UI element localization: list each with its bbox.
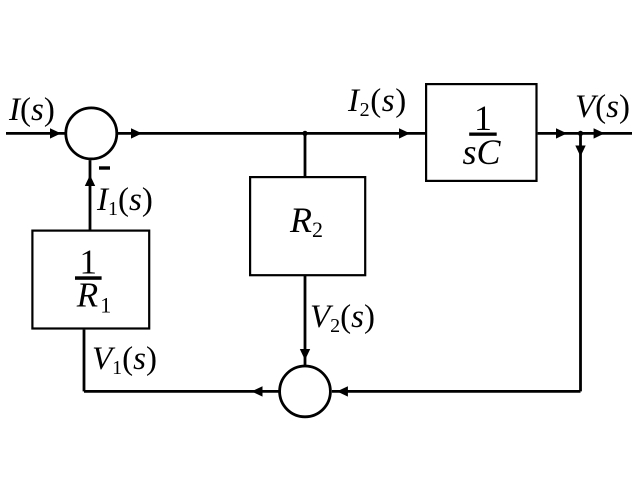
arrowhead after top summer xyxy=(131,128,142,138)
svg-text:R2: R2 xyxy=(289,200,323,242)
svg-text:R1: R1 xyxy=(76,275,111,317)
arrowhead V2 into bottom summer xyxy=(300,349,310,360)
value 1/R1 fraction xyxy=(75,243,111,318)
wire input I(s) xyxy=(6,132,65,135)
arrowhead into 1/sC xyxy=(399,128,410,138)
wire 1/sC output to right xyxy=(538,132,632,135)
block 1/sC xyxy=(426,84,536,181)
block R2 xyxy=(250,177,365,275)
node junction dot I2 xyxy=(302,131,307,136)
summing junction top xyxy=(66,108,117,159)
arrowhead input xyxy=(50,128,61,138)
arrowhead bottom output left xyxy=(252,386,263,396)
minus sign at top summer xyxy=(99,166,110,169)
svg-text:I2(s): I2(s) xyxy=(347,83,407,121)
arrowhead up into top summer xyxy=(85,175,95,186)
wire right into bottom summer xyxy=(332,390,581,393)
node junction dot V xyxy=(578,131,583,136)
wire R2 down to bottom summer xyxy=(304,276,307,365)
wire right vertical feedback xyxy=(579,133,582,391)
wire bottom summer output left xyxy=(84,390,279,393)
wire left vertical up to 1/R1 xyxy=(83,330,86,392)
svg-text:I1(s): I1(s) xyxy=(96,182,153,220)
wire junction down to R2 xyxy=(304,133,307,176)
svg-text:V1(s): V1(s) xyxy=(92,341,157,379)
arrowhead into bottom summer from right xyxy=(337,386,348,396)
svg-text:I(s): I(s) xyxy=(8,92,55,128)
svg-text:sC: sC xyxy=(462,132,501,172)
wire top summer to 1/sC block xyxy=(118,132,426,135)
arrowhead down right feedback xyxy=(575,146,585,157)
arrowhead after 1/sC xyxy=(556,128,567,138)
block 1/R1 xyxy=(32,231,149,329)
wire 1/R1 up to top summer xyxy=(89,160,92,229)
svg-text:V(s): V(s) xyxy=(575,89,630,125)
value 1/sC fraction xyxy=(462,98,501,172)
arrowhead after V node xyxy=(594,128,605,138)
svg-text:V2(s): V2(s) xyxy=(310,299,375,337)
summing junction bottom xyxy=(280,366,331,417)
